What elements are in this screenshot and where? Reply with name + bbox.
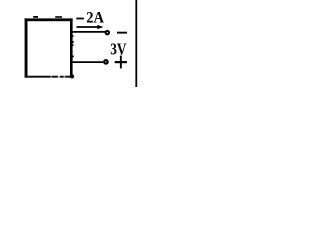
svg-text:2A: 2A bbox=[86, 10, 104, 27]
svg-text:3V: 3V bbox=[110, 39, 127, 58]
